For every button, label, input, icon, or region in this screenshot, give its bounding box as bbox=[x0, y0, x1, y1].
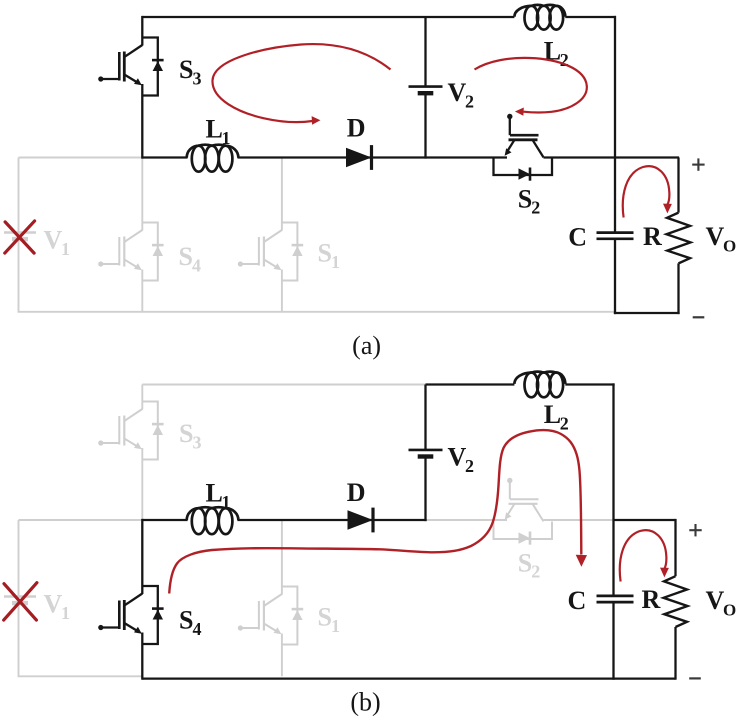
svg-text:R: R bbox=[642, 585, 661, 614]
svg-text:2: 2 bbox=[465, 456, 474, 476]
capacitor C (a) bbox=[597, 233, 634, 239]
svg-text:2: 2 bbox=[560, 413, 569, 433]
wire middle rail segment B (a) bbox=[238, 156, 508, 158]
wire grey V1 top link (a) bbox=[19, 157, 143, 159]
diode D (a) bbox=[346, 145, 372, 170]
wire grey S1 upper leg (b) bbox=[281, 520, 283, 595]
svg-text:R: R bbox=[643, 222, 662, 251]
svg-text:1: 1 bbox=[61, 239, 70, 259]
wire S3 collector stub (a) bbox=[141, 16, 143, 46]
transistor S2 (a, active) bbox=[494, 114, 553, 181]
wire right rail upper (b) bbox=[612, 383, 614, 596]
transistor S3 (b, inactive) bbox=[98, 402, 163, 460]
inductor L2 (a) bbox=[514, 5, 565, 30]
resistor R (a) bbox=[667, 213, 691, 264]
wire top rail left segment (b) bbox=[426, 383, 515, 385]
wire resistor branch upper (a) bbox=[677, 158, 679, 213]
label S3 (a) bbox=[179, 55, 202, 88]
label S4 (b) bbox=[179, 606, 202, 639]
inductor L1 (b) bbox=[187, 507, 239, 534]
label S2 (b) bbox=[518, 548, 541, 581]
transistor S3 (a, active) bbox=[98, 38, 163, 96]
svg-text:1: 1 bbox=[331, 616, 340, 636]
label S1 (a) bbox=[318, 239, 341, 272]
svg-text:S: S bbox=[318, 603, 332, 632]
wire grey S4 upper leg (a) bbox=[141, 158, 143, 231]
wire grey bottom link (b) bbox=[18, 675, 143, 677]
label V2 (b) bbox=[448, 443, 475, 476]
wire S4 emitter leg (b) bbox=[141, 633, 143, 680]
svg-text:C: C bbox=[568, 586, 587, 615]
battery V1 (b, disconnected) bbox=[4, 597, 36, 604]
svg-text:S: S bbox=[518, 184, 532, 213]
battery V2 (a) bbox=[409, 87, 443, 94]
wire output top link (b) bbox=[614, 519, 676, 521]
inductor L1 (a) bbox=[187, 145, 239, 172]
svg-text:L: L bbox=[544, 400, 561, 429]
svg-text:V: V bbox=[44, 590, 63, 619]
wire grey S1 lower leg (b) bbox=[281, 634, 283, 677]
wire top rail right segment (a) bbox=[565, 16, 616, 18]
svg-text:S: S bbox=[179, 55, 193, 84]
inductor L2 (b) bbox=[514, 372, 565, 398]
wire grey S1 upper leg (a) bbox=[281, 158, 283, 231]
svg-text:2: 2 bbox=[465, 91, 474, 111]
svg-text:V: V bbox=[448, 443, 467, 472]
wire grey middle segment right (b) bbox=[544, 519, 614, 521]
wire V2 branch upper (a) bbox=[424, 17, 426, 87]
wire grey V1 left rail (b) bbox=[18, 520, 20, 676]
wire V2 branch lower (a) bbox=[424, 93, 426, 158]
wire right rail lower (a) bbox=[614, 239, 616, 314]
wire grey bottom rail (a) bbox=[18, 311, 617, 313]
svg-text:S: S bbox=[318, 239, 332, 268]
battery V1 (a, disconnected) bbox=[4, 233, 36, 240]
label L2 (b) bbox=[544, 400, 569, 433]
transistor S2 (b, inactive) bbox=[494, 478, 553, 545]
svg-text:O: O bbox=[723, 600, 736, 619]
svg-text:O: O bbox=[723, 236, 736, 255]
wire right rail lower (b) bbox=[612, 602, 614, 680]
wire V2 branch upper (b) bbox=[424, 385, 426, 450]
svg-text:C: C bbox=[568, 223, 587, 252]
battery V2 (b) bbox=[409, 450, 443, 457]
wire middle rail segment A (b) bbox=[142, 519, 187, 521]
svg-text:V: V bbox=[706, 586, 725, 615]
svg-text:V: V bbox=[44, 226, 63, 255]
label S3 (b) bbox=[179, 419, 202, 452]
svg-text:4: 4 bbox=[192, 255, 201, 275]
svg-text:V: V bbox=[706, 222, 725, 251]
diode D (b) bbox=[348, 508, 374, 533]
wire S4 collector leg (b) bbox=[141, 519, 143, 594]
wire right rail upper (a) bbox=[614, 16, 616, 233]
svg-text:S: S bbox=[179, 242, 193, 271]
wire grey S3 collector stub (b) bbox=[141, 385, 143, 410]
label V1 (b) bbox=[44, 590, 71, 623]
wire top rail right segment (b) bbox=[565, 383, 614, 385]
label L1 (b) bbox=[206, 479, 231, 512]
svg-text:L: L bbox=[206, 479, 223, 508]
label S4 (a) bbox=[179, 242, 202, 275]
plus sign output (a) bbox=[692, 158, 704, 170]
svg-text:(b): (b) bbox=[350, 688, 380, 717]
label L1 (a) bbox=[206, 115, 231, 148]
wire resistor branch lower (b) bbox=[674, 627, 676, 680]
label Vo (a) bbox=[706, 222, 737, 255]
minus sign output (a) bbox=[693, 316, 705, 318]
wire resistor branch upper (b) bbox=[674, 519, 676, 576]
svg-text:1: 1 bbox=[222, 128, 231, 148]
svg-text:L: L bbox=[206, 115, 223, 144]
wire grey top rail (b) bbox=[142, 384, 425, 386]
wire middle rail segment A (a) bbox=[142, 156, 187, 158]
label Vo (b) bbox=[706, 586, 737, 619]
svg-text:V: V bbox=[448, 78, 467, 107]
transistor S4 (b, active) bbox=[98, 586, 163, 644]
red output loop arrow (b) bbox=[620, 530, 669, 581]
plus sign output (b) bbox=[689, 524, 701, 536]
svg-text:S: S bbox=[518, 548, 532, 577]
wire bottom output link (a) bbox=[614, 312, 680, 314]
label S2 (a) bbox=[518, 184, 541, 217]
capacitor C (b) bbox=[597, 596, 634, 602]
label S1 (b) bbox=[318, 603, 341, 636]
red X over V1 (a) bbox=[5, 221, 35, 253]
wire grey middle segment left (b) bbox=[426, 519, 508, 521]
red current path arrow (b) bbox=[169, 430, 587, 593]
wire middle rail segment B (b) bbox=[238, 519, 427, 521]
label V1 (a) bbox=[44, 226, 71, 259]
svg-text:2: 2 bbox=[531, 562, 540, 582]
wire S3 emitter leg (a) bbox=[141, 84, 143, 159]
label L2 (a) bbox=[544, 37, 569, 70]
svg-text:(a): (a) bbox=[352, 331, 381, 360]
svg-text:2: 2 bbox=[531, 198, 540, 218]
svg-text:D: D bbox=[347, 478, 366, 507]
wire resistor branch lower (a) bbox=[677, 263, 679, 314]
wire middle rail segment C (a) bbox=[544, 156, 680, 158]
wire V2 branch lower (b) bbox=[424, 457, 426, 522]
transistor S4 (a, inactive) bbox=[98, 223, 163, 281]
svg-text:S: S bbox=[179, 606, 193, 635]
transistor S1 (b, inactive) bbox=[238, 587, 303, 645]
resistor R (b) bbox=[664, 576, 688, 627]
wire grey S3 emitter leg (b) bbox=[141, 448, 143, 520]
wire grey S1 lower leg (a) bbox=[281, 270, 283, 312]
transistor S1 (a, inactive) bbox=[238, 223, 303, 281]
minus sign output (b) bbox=[689, 677, 701, 679]
wire top rail left segment (a) bbox=[142, 16, 514, 18]
wire bottom rail (b) bbox=[142, 677, 675, 679]
label V2 (a) bbox=[448, 78, 475, 111]
svg-text:1: 1 bbox=[222, 492, 231, 512]
svg-text:2: 2 bbox=[560, 50, 569, 70]
svg-text:3: 3 bbox=[193, 432, 202, 452]
red X over V1 (b) bbox=[4, 583, 37, 620]
wire grey V1 top link (b) bbox=[19, 519, 143, 521]
svg-text:4: 4 bbox=[193, 619, 202, 639]
wire grey S4 lower leg (a) bbox=[141, 270, 143, 312]
wire grey V1 left rail (a) bbox=[18, 158, 20, 312]
svg-text:D: D bbox=[347, 114, 366, 143]
red current loop arrow 2 (a) bbox=[475, 58, 587, 116]
red output loop arrow (a) bbox=[623, 166, 672, 217]
svg-text:1: 1 bbox=[61, 603, 70, 623]
svg-text:S: S bbox=[179, 419, 193, 448]
svg-text:1: 1 bbox=[331, 252, 340, 272]
svg-text:3: 3 bbox=[193, 68, 202, 88]
red current loop arrow 1 (a) bbox=[212, 44, 390, 125]
